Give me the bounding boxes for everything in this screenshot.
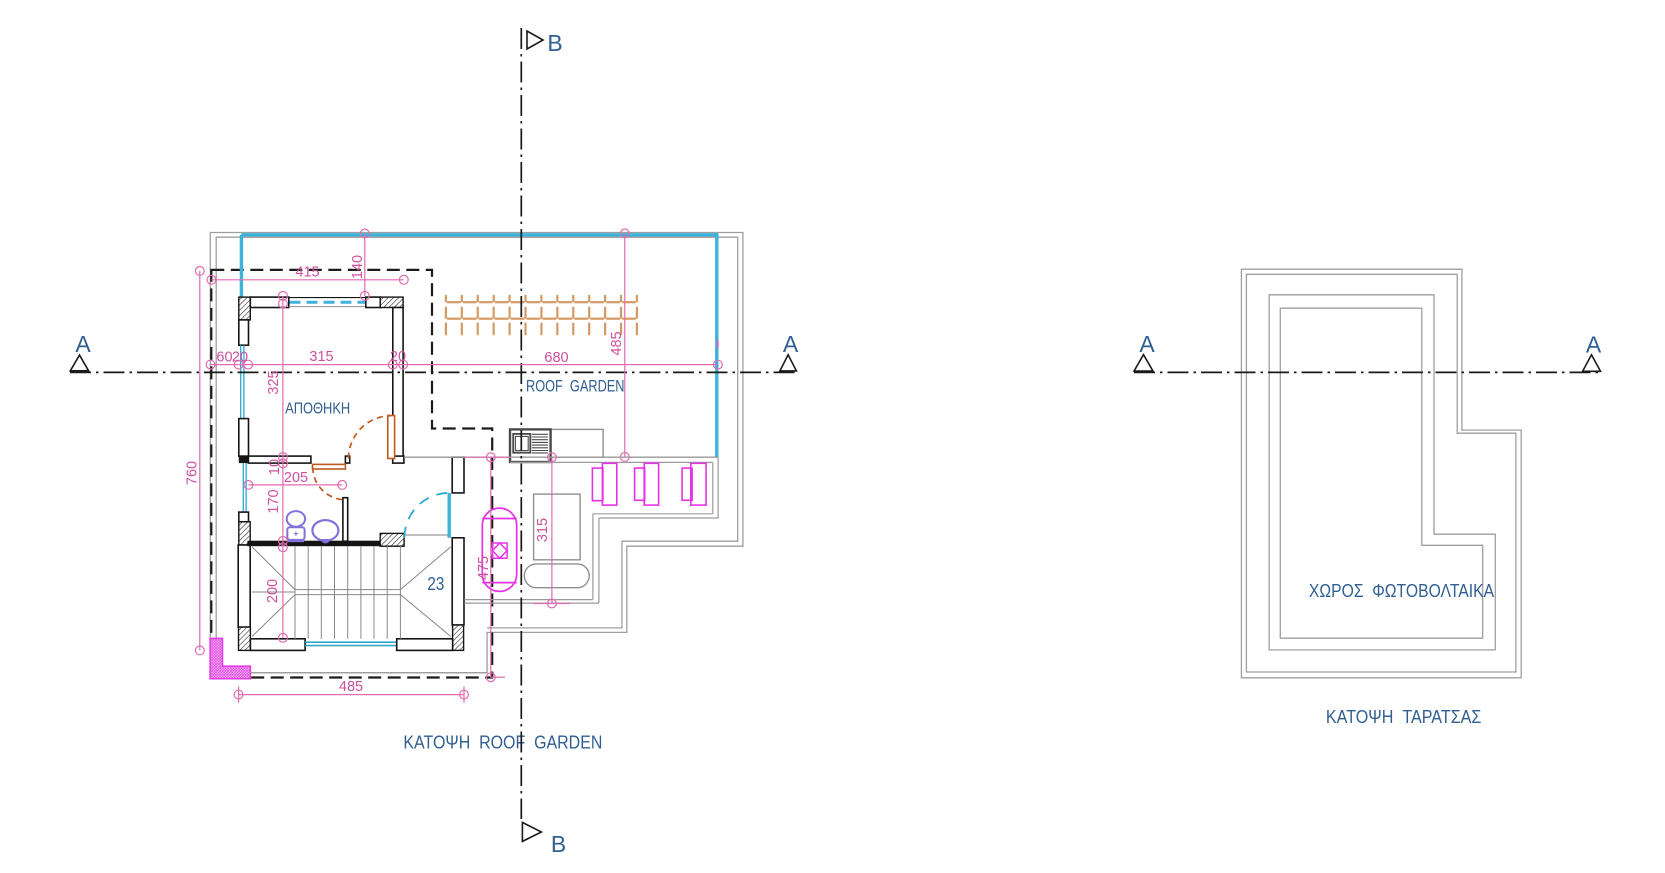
dimension chain horizontal 60 20 315 20 680 — [206, 360, 722, 369]
door D1 swing arc — [349, 416, 392, 459]
svg-text:205: 205 — [284, 470, 308, 486]
svg-text:760: 760 — [185, 461, 201, 485]
barbecue trolley burner square — [492, 543, 507, 558]
step vertical inner — [592, 514, 594, 600]
cyan window left wall upper line a — [240, 345, 242, 418]
photovoltaic area boundary outer (right drawing) — [1269, 295, 1495, 650]
wall hatched corner block top-left — [239, 297, 251, 320]
toilet tank — [287, 527, 304, 540]
roof terrace outer boundary line 1 (right drawing) — [1241, 269, 1521, 678]
svg-text:ΑΠΟΘΗΚΗ: ΑΠΟΘΗΚΗ — [285, 401, 350, 418]
barbecue trolley chord top — [482, 518, 516, 520]
svg-text:10: 10 — [267, 459, 283, 475]
lounger band top line — [510, 461, 713, 463]
stairwell left wall — [238, 545, 250, 627]
hallway wall band middle pier — [345, 456, 349, 463]
dimension 315 vertical line lower — [465, 453, 570, 608]
svg-text:20: 20 — [390, 349, 406, 365]
svg-text:ROOF GARDEN: ROOF GARDEN — [526, 376, 625, 395]
svg-text:B: B — [547, 30, 562, 56]
lounger band bottom outer — [599, 517, 718, 519]
door D3 swing arc cyan — [404, 493, 449, 538]
svg-text:485: 485 — [609, 331, 625, 355]
pink tick on cyan edge — [717, 340, 719, 349]
cyan window left wall upper line b — [243, 345, 245, 418]
section marker triangle A right of left drawing — [780, 355, 797, 371]
cyan window left wall lower line a — [242, 463, 244, 512]
door D3 cyan leaf — [448, 493, 451, 538]
svg-text:23: 23 — [427, 574, 444, 594]
door D2 leaf to bathroom — [313, 464, 346, 469]
barbecue unit dark outline — [510, 429, 551, 462]
wall hatched pier at stair opening — [380, 533, 404, 546]
bathroom right wall — [343, 498, 348, 542]
grill slats — [532, 434, 548, 453]
wall hatched block bottom-right — [453, 625, 464, 650]
roof garden cyan edge top and right — [241, 235, 716, 457]
svg-text:325: 325 — [266, 370, 282, 394]
door D2 swing arc — [313, 467, 346, 500]
left wall segment 1 — [239, 320, 249, 345]
stair diagonal break lines — [252, 547, 451, 637]
svg-text:20: 20 — [232, 350, 248, 366]
wall hatched block bottom-left — [239, 627, 251, 650]
svg-text:475: 475 — [476, 556, 492, 580]
section marker triangle B bottom — [522, 822, 541, 841]
section line B vertical — [520, 28, 522, 819]
dimension 760 line — [195, 267, 204, 655]
svg-text:ΚΑΤΟΨΗ ΤΑΡΑΤΣΑΣ: ΚΑΤΟΨΗ ΤΑΡΑΤΣΑΣ — [1326, 707, 1482, 727]
left drawing gray outer boundary outer line — [210, 233, 743, 673]
stair mid landing lines — [252, 590, 400, 595]
sun lounger 2 — [635, 463, 659, 505]
step vertical outer — [598, 518, 600, 603]
gray bottom edge line — [250, 672, 487, 674]
svg-text:485: 485 — [339, 679, 363, 695]
sink square outer — [513, 434, 530, 453]
sink tap — [321, 539, 330, 544]
hallway wall band right piece — [393, 456, 404, 463]
svg-text:ΧΩΡΟΣ ΦΩΤΟΒΟΛΤΑΙΚΑ: ΧΩΡΟΣ ΦΩΤΟΒΟΛΤΑΙΚΑ — [1309, 581, 1494, 601]
dimension 485 bottom line — [234, 687, 468, 703]
cyan window bottom wall line a — [305, 641, 397, 643]
sink basin — [312, 520, 338, 541]
svg-text:A: A — [75, 331, 91, 357]
sun lounger 1 — [592, 463, 616, 505]
pergola grid — [446, 295, 637, 335]
window sill line top wall — [289, 306, 366, 308]
door D1 leaf to storage room — [388, 416, 395, 459]
terrace edge line y457 — [404, 456, 718, 458]
svg-text:200: 200 — [265, 579, 281, 603]
svg-text:315: 315 — [535, 518, 551, 542]
garden bench — [524, 564, 589, 588]
sink square inner — [515, 436, 528, 450]
storage room right wall — [393, 308, 403, 459]
roof garden cyan edge left segment — [240, 235, 243, 299]
toilet tank mark — [294, 531, 299, 536]
cyan dashed window top wall — [290, 301, 366, 304]
wall hatched corner block top-right — [380, 297, 403, 307]
garden table — [534, 494, 581, 560]
dimension 140 line — [360, 229, 369, 300]
step horizontal outer — [464, 602, 599, 604]
dimension 205 line — [244, 481, 347, 490]
stair treads — [295, 546, 400, 639]
left wall joint block solid — [239, 456, 249, 463]
hallway wall band left piece — [248, 456, 311, 463]
photovoltaic area boundary inner (right drawing) — [1280, 308, 1482, 638]
svg-text:170: 170 — [266, 489, 282, 513]
section line A left drawing — [70, 371, 797, 373]
lounger band bottom inner — [593, 513, 713, 515]
svg-text:A: A — [1586, 331, 1602, 357]
bottom wall segment right — [397, 639, 453, 651]
svg-text:140: 140 — [350, 255, 366, 279]
barbecue trolley chord bottom — [482, 582, 516, 584]
dimension 415 line — [207, 275, 408, 284]
section marker triangle A far right — [1583, 355, 1601, 372]
section marker triangle B top — [527, 31, 543, 49]
section marker triangle A left of right drawing — [1134, 355, 1153, 371]
svg-text:415: 415 — [295, 265, 319, 281]
svg-text:ΚΑΤΟΨΗ ROOF GARDEN: ΚΑΤΟΨΗ ROOF GARDEN — [403, 733, 602, 753]
left drawing gray outer boundary inner line — [216, 237, 738, 638]
lounger band right inner — [712, 462, 714, 513]
left wall segment 3 — [239, 512, 249, 522]
wall top segment right — [366, 297, 381, 307]
dimension 485 right vertical line — [620, 229, 629, 461]
barbecue trolley burner diamond — [492, 543, 507, 558]
left wall segment 2 — [239, 419, 249, 457]
cyan window left wall lower line b — [245, 463, 247, 512]
section line A right drawing — [1134, 371, 1600, 373]
svg-text:315: 315 — [309, 349, 333, 365]
barbecue trolley stadium — [482, 508, 516, 591]
roof terrace outer boundary line 2 (right drawing) — [1246, 274, 1516, 672]
right wall lower segment — [452, 538, 464, 625]
window head line top wall — [289, 297, 366, 299]
svg-text:A: A — [1139, 331, 1155, 357]
dimension chain vertical 325 10 170 200 — [279, 292, 288, 643]
wall hatched block left middle — [239, 522, 250, 545]
threshold line right of pier — [404, 534, 448, 536]
wall top segment left — [250, 297, 288, 307]
cyan window bottom wall line b — [305, 645, 397, 647]
svg-text:A: A — [783, 331, 799, 357]
dimension 475 line — [486, 453, 505, 682]
step horizontal inner — [464, 599, 593, 601]
svg-text:60: 60 — [216, 350, 232, 366]
stair hall wall band solid — [247, 541, 380, 547]
svg-text:B: B — [551, 831, 566, 857]
lower floor footprint dashed outline — [211, 270, 492, 678]
toilet bowl — [287, 511, 305, 527]
section marker triangle A left — [70, 355, 88, 371]
sun lounger 3 — [682, 463, 706, 505]
lounger band right outer — [717, 457, 719, 518]
bottom wall segment left — [250, 639, 305, 651]
right wall upper segment — [452, 457, 464, 493]
svg-text:680: 680 — [544, 350, 568, 366]
magenta hatched corner L — [210, 638, 250, 678]
kitchen counter outline — [510, 429, 603, 457]
